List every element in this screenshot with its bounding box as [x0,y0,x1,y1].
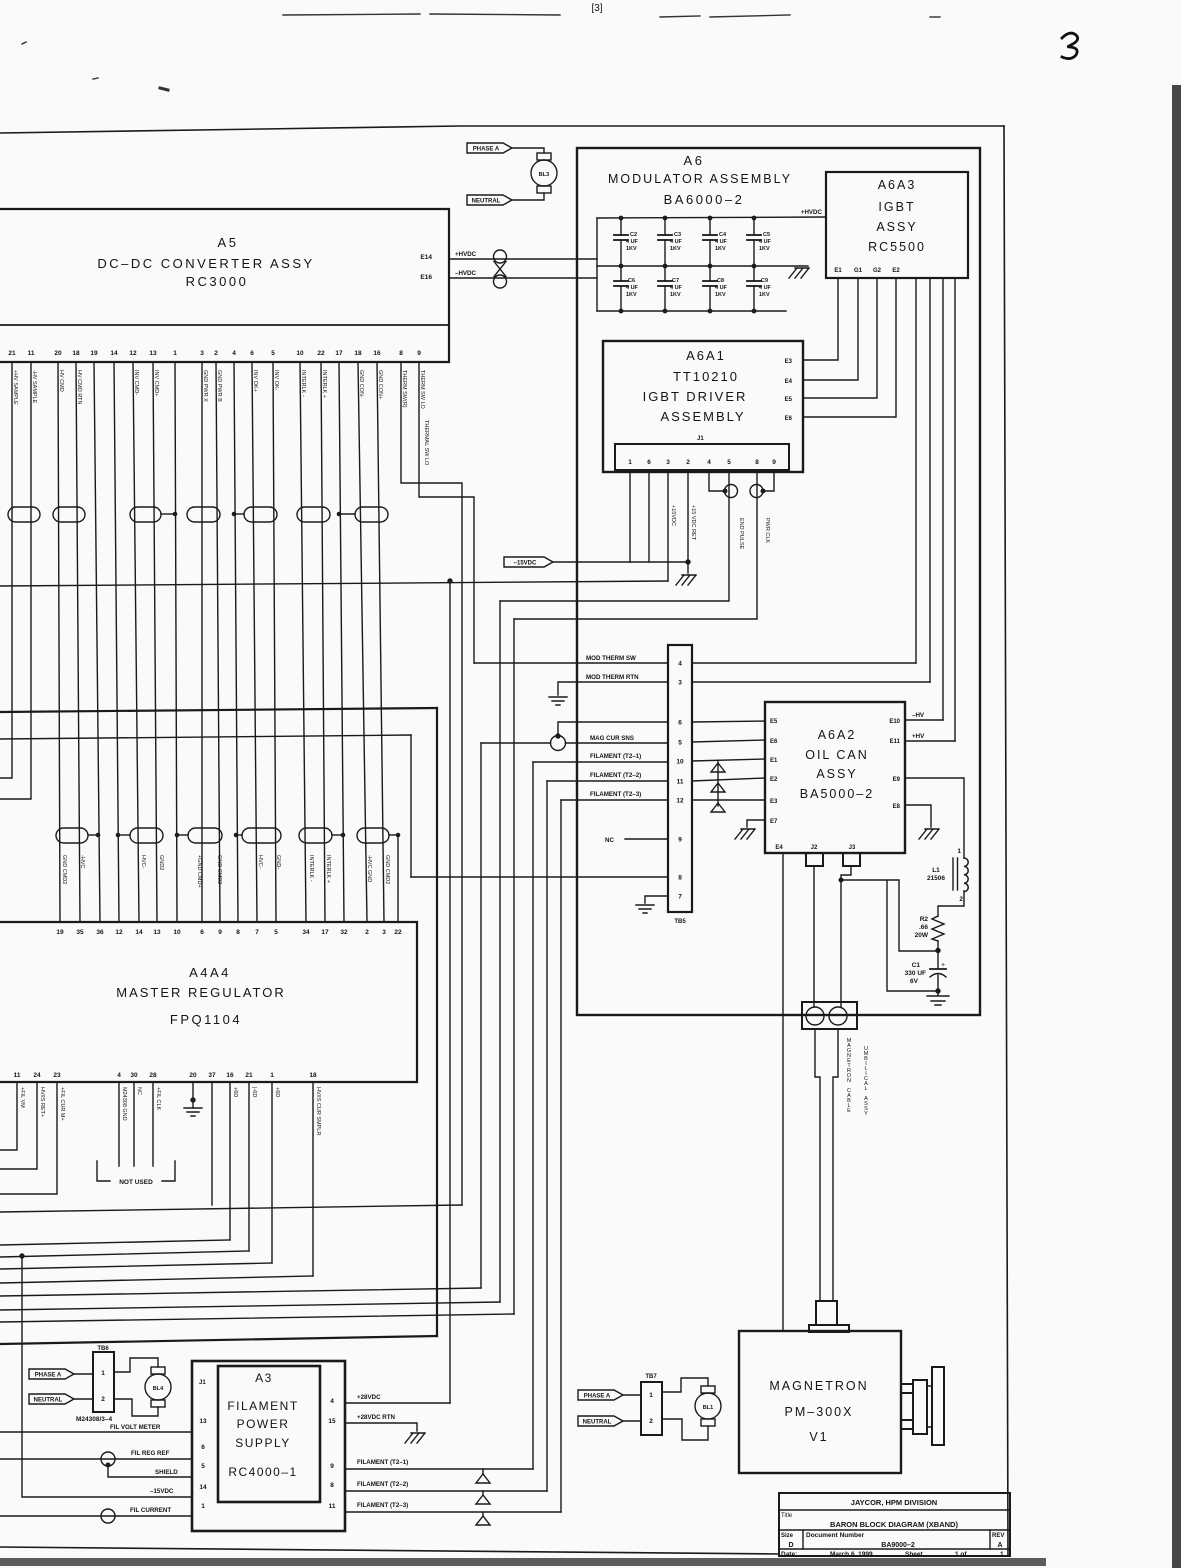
flag -15VDC [504,557,553,567]
svg-text:37: 37 [208,1072,216,1079]
svg-text:–15VDC: –15VDC [150,1488,174,1495]
svg-text:21: 21 [245,1072,253,1079]
svg-text:IGBT: IGBT [878,200,915,214]
svg-text:PHASE A: PHASE A [473,147,500,153]
sheet top border [0,126,1004,133]
svg-text:1: 1 [201,1503,205,1510]
cable label MAGNETRON CABLE (stacked) [847,1038,869,1117]
svg-text:INV OK-: INV OK- [273,370,279,391]
svg-text:3: 3 [200,350,204,357]
wire MOD THERM SW [474,662,668,664]
svg-text:-HVC GND: -HVC GND [366,855,372,882]
svg-text:4 UF: 4 UF [626,285,639,291]
ferrite oval taps row 1 [161,512,355,515]
wire A6A3 to MOD THERM RTN [929,278,931,682]
A4A4 bottom pin wire labels (rotated) [19,1087,321,1135]
svg-text:+6D: +6D [274,1087,280,1097]
magnetron PM-300X V1 box [739,1331,901,1473]
svg-text:[3]: [3] [591,3,602,14]
svg-text:PWR CLK: PWR CLK [764,518,770,543]
wire A5 pin 18 to A4A4 [76,362,80,922]
J2 stub [806,853,823,866]
svg-text:10: 10 [296,350,304,357]
wire A5 pin 5 to A4A4 [273,362,276,922]
svg-text:E6: E6 [785,416,793,422]
svg-text:March 6, 1999: March 6, 1999 [830,1551,873,1558]
svg-text:+: + [941,962,945,969]
svg-text:PHASE A: PHASE A [584,1394,611,1400]
svg-text:E3: E3 [770,799,778,805]
svg-text:MASTER REGULATOR: MASTER REGULATOR [116,985,285,1000]
svg-text:9: 9 [417,350,421,357]
wire A5 pin 18 to A4A4 [358,362,367,922]
spark gaps between filament lines at A3 [476,1474,490,1525]
wire A5 pin 14 to A4A4 [114,362,119,922]
wire A5 pin 1 to A4A4 [175,362,177,922]
wire J1 pin 3 +15VDC [667,472,669,581]
svg-text:4 UF: 4 UF [670,285,683,291]
svg-text:+FIL CUR M+: +FIL CUR M+ [59,1087,65,1121]
svg-text:5: 5 [201,1463,205,1470]
svg-text:C5: C5 [763,232,770,238]
svg-text:GND CMD2: GND CMD2 [216,855,222,884]
bus wire A4A4 pin 1 [0,1263,272,1269]
svg-text:19: 19 [56,929,64,936]
svg-text:C6: C6 [628,278,635,284]
svg-text:MODULATOR ASSEMBLY: MODULATOR ASSEMBLY [608,172,792,186]
svg-text:1KV: 1KV [626,292,637,298]
svg-text:C3: C3 [674,232,681,238]
wire A5 pin 10 to A4A4 [300,362,306,922]
svg-text:23: 23 [53,1072,61,1079]
wire PWR CLK vertical [513,619,515,1314]
svg-text:4 UF: 4 UF [715,239,728,245]
wire L1 to R2 [938,891,964,916]
J3 stub [843,853,860,866]
svg-text:+HVDC: +HVDC [455,251,477,258]
svg-text:C9: C9 [761,278,768,284]
svg-text:20: 20 [54,350,62,357]
svg-text:11: 11 [28,350,35,357]
cap bank bottom rail [597,310,786,312]
svg-text:21506: 21506 [927,875,945,882]
svg-text:POWER: POWER [237,1417,290,1431]
svg-text:13: 13 [199,1418,207,1425]
svg-text:NC: NC [605,837,614,844]
svg-text:30: 30 [130,1072,138,1079]
svg-text:9: 9 [330,1463,334,1470]
svg-text:OIL CAN: OIL CAN [805,748,869,762]
NC stub TB5 pin 9 [625,838,668,840]
svg-text:5: 5 [727,459,731,466]
wire MOD THERM RTN with ground [558,682,668,695]
cap bank +HVDC top rail [597,217,826,218]
wire TB7 pin 1 to BL1 [662,1378,708,1392]
svg-text:|-6D: |-6D [251,1087,257,1097]
svg-text:2: 2 [214,350,218,357]
wire E2 to driver E6 [803,278,896,417]
spark gaps between filament lines [711,761,725,812]
svg-text:1KV: 1KV [759,292,770,298]
svg-text:36: 36 [96,929,104,936]
svg-text:17: 17 [335,350,343,357]
svg-text:1KV: 1KV [670,292,681,298]
svg-text:MAGNETRON: MAGNETRON [769,1379,868,1393]
magnetron input stub [816,1301,837,1325]
svg-text:1KV: 1KV [715,246,726,252]
wire A5 pin 17 to A4A4 [339,362,344,922]
svg-text:PHASE A: PHASE A [35,1373,62,1379]
svg-text:18: 18 [72,350,80,357]
wire TB7 pin 2 to BL1 [662,1419,708,1440]
wire TB5 pin 11 to E2 [692,778,765,781]
svg-text:2: 2 [649,1418,653,1425]
svg-text:1: 1 [649,1392,653,1399]
A3 filament power supply box [192,1361,345,1531]
blower motor BL4 [145,1367,171,1407]
flag NEUTRAL (top) [467,195,512,205]
svg-text:10: 10 [173,929,181,936]
svg-text:TB7: TB7 [645,1374,657,1380]
svg-text:JAYCOR, HPM DIVISION: JAYCOR, HPM DIVISION [851,1498,937,1507]
svg-text:+28VDC: +28VDC [357,1394,381,1401]
connector loop J1 pin 4 [709,472,725,491]
svg-text:3: 3 [382,929,386,936]
wire MAG CUR SNS vertical [480,743,482,1288]
bus wire PWR CLK [0,1314,514,1322]
title block [779,1493,1010,1558]
capacitor C9 4 UF 1KV [747,266,772,313]
svg-text:ASSY: ASSY [876,220,917,234]
svg-text:E14: E14 [420,254,432,261]
capacitor C6 4 UF 1KV [614,266,639,313]
svg-text:J3: J3 [849,845,856,851]
svg-text:SUPPLY: SUPPLY [235,1436,290,1450]
svg-text:35: 35 [76,929,84,936]
svg-text:C8: C8 [717,278,724,284]
svg-text:6V: 6V [910,978,919,985]
svg-text:G1: G1 [854,268,863,274]
wire NEUTRAL to BL3 [511,193,544,200]
svg-text:Size: Size [781,1533,794,1539]
svg-text:M24308 GND: M24308 GND [121,1087,127,1121]
wire TB5 pin 10 to E1 [692,759,765,761]
svg-text:C4: C4 [719,232,727,238]
wire TB5 pin 6 to sense loop [558,722,668,736]
svg-text:A4A4: A4A4 [189,965,231,980]
svg-text:J1: J1 [199,1380,206,1386]
svg-text:M24308/3–4: M24308/3–4 [76,1416,113,1423]
svg-text:+15 VDC RET: +15 VDC RET [690,505,696,541]
svg-text:FILAMENT: FILAMENT [227,1399,298,1413]
svg-text:E1: E1 [770,758,778,764]
svg-text:ASSY: ASSY [816,767,857,781]
svg-text:4 UF: 4 UF [759,239,772,245]
bus wire +15VDC to J1 pin 3 [0,581,668,586]
svg-text:E11: E11 [890,739,901,745]
svg-text:+28VDC RTN: +28VDC RTN [357,1414,396,1421]
bus wire thick interlock bottom [0,1336,437,1344]
wire FILAMENT (T2-2) to TB5 pin 11 [547,780,668,782]
svg-text:1: 1 [1000,1551,1004,1558]
A6A3 IGBT assy box [826,172,968,278]
wire G2 to driver E5 [803,278,877,398]
flag PHASE A (top) [467,143,512,153]
ground at mid rail [789,268,809,278]
A4A4 top pin numbers [56,929,402,936]
svg-text:3: 3 [666,459,670,466]
svg-text:11: 11 [14,1072,21,1079]
wire J1 pin 2 +15 VDC RET to ground [687,472,689,573]
A6A1 IGBT driver assembly box [603,341,803,472]
svg-text:IGBT DRIVER: IGBT DRIVER [643,389,748,404]
svg-text:FILAMENT (T2–2): FILAMENT (T2–2) [357,1481,408,1488]
handwritten sheet number 3 [1062,33,1078,59]
twisted pair symbol [494,250,507,263]
svg-text:9: 9 [678,837,682,844]
wire E1 to driver E3 [803,278,838,360]
svg-text:MOD THERM SW: MOD THERM SW [586,655,636,662]
svg-text:5: 5 [678,740,682,747]
svg-text:BL3: BL3 [539,172,549,178]
svg-text:FILAMENT (T2–1): FILAMENT (T2–1) [590,753,641,760]
svg-text:E4: E4 [775,845,783,851]
blower motor BL3 [531,153,557,193]
svg-text:11: 11 [329,1503,336,1510]
svg-text:2: 2 [959,896,963,903]
svg-text:6: 6 [200,929,204,936]
svg-text:MAG CUR SNS: MAG CUR SNS [590,735,634,742]
svg-text:12: 12 [676,798,684,805]
bus wire MAG CUR SNS [0,1288,481,1296]
svg-text:8: 8 [330,1482,334,1489]
wire -15VDC to A3 [22,1256,192,1497]
svg-text:E3: E3 [785,359,793,365]
svg-text:HVC-: HVC- [140,855,146,869]
svg-text:NEUTRAL: NEUTRAL [583,1420,612,1426]
wire G1 to driver E4 [803,278,858,380]
svg-text:16: 16 [373,350,381,357]
svg-text:+6D: +6D [232,1087,238,1097]
sense loop wires near C1 [841,880,936,991]
J1 wire labels (rotated) [670,505,770,550]
scan dark bar right edge [1172,85,1181,1568]
svg-text:C2: C2 [630,232,637,238]
svg-text:8: 8 [678,875,682,882]
svg-text:14: 14 [110,350,118,357]
svg-text:FILAMENT (T2–3): FILAMENT (T2–3) [590,791,641,798]
resistor R2 .66 20W [915,916,944,941]
svg-text:REV: REV [992,1533,1004,1539]
ferrite bead ovals row 2 [56,828,389,843]
wire +28VDC [345,1402,450,1404]
wire TB6 pin 2 to BL4 [114,1399,158,1416]
svg-text:END PULSE: END PULSE [738,518,744,550]
svg-text:1: 1 [270,1072,274,1079]
inductor L1 21506 [927,848,968,903]
wire A5 pin 8 therm sw [401,362,462,1205]
svg-text:4 UF: 4 UF [759,285,772,291]
svg-text:THERM SW LO: THERM SW LO [419,370,425,410]
A4A4 top pin wire labels (rotated) [61,855,390,888]
svg-text:18: 18 [354,350,362,357]
svg-text:14: 14 [135,929,143,936]
svg-text:16: 16 [226,1072,234,1079]
svg-text:330 UF: 330 UF [905,970,926,977]
svg-text:+FIL VM: +FIL VM [19,1087,25,1108]
wire PHASE A to BL3 [511,148,544,153]
wire E7 to ground [747,820,765,827]
svg-text:4: 4 [707,459,711,466]
svg-text:BA6000–2: BA6000–2 [664,192,745,207]
svg-text:INTERLK -: INTERLK - [308,855,314,882]
A6 modulator assembly box [577,148,980,1015]
wire -HVDC E16 to cap bank [449,277,597,279]
A5 DC-DC converter assy box [0,209,449,362]
svg-text:NEUTRAL: NEUTRAL [472,199,501,205]
A4A4 bottom pin numbers [14,1072,317,1079]
svg-text:-HVC: -HVC [79,855,85,868]
svg-text:E9: E9 [893,777,901,783]
svg-text:E6: E6 [770,739,778,745]
svg-text:GND-: GND- [275,855,281,869]
flag PHASE A (TB7) [578,1390,623,1400]
svg-text:+HV: +HV [912,733,925,740]
wire J1 pin 1 to -15VDC [629,472,631,562]
terminal strip TB5 [668,645,692,925]
bus wire END PULSE [0,1302,500,1310]
terminal strip TB7 [641,1374,662,1435]
scan dark band bottom [0,1558,1046,1566]
svg-text:R2: R2 [920,916,929,923]
svg-text:DC–DC CONVERTER ASSY: DC–DC CONVERTER ASSY [97,256,314,271]
wire TB5 pin 4 to A6A3 [692,662,916,664]
svg-text:NEUTRAL: NEUTRAL [34,1398,63,1404]
capacitor C8 4 UF 1KV [703,266,728,313]
svg-text:18: 18 [309,1072,317,1079]
svg-text:A: A [997,1542,1002,1549]
svg-text:GND CMD2: GND CMD2 [61,855,67,884]
wire J1 pin 5 END PULSE [500,472,729,601]
A5 pin wire labels (rotated) [12,370,429,466]
svg-text:3: 3 [678,680,682,687]
wire TB5 pin 12 to E3 [692,799,765,801]
svg-text:–HV: –HV [912,712,925,719]
svg-text:FILAMENT (T2–3): FILAMENT (T2–3) [357,1502,408,1509]
svg-text:PM–300X: PM–300X [785,1405,854,1419]
magnetron cable pair [815,1029,820,1301]
svg-text:–HVDC: –HVDC [455,270,477,277]
svg-text:2: 2 [101,1396,105,1403]
svg-text:E4: E4 [785,379,793,385]
svg-text:A6A1: A6A1 [686,348,726,363]
svg-text:BA9000–2: BA9000–2 [881,1542,915,1549]
wire TB5 pin 8 long bus [411,876,668,878]
wire A5 pin 6 to A4A4 [252,362,257,922]
svg-text:FIL CURRENT: FIL CURRENT [130,1507,171,1514]
svg-text:E: E [847,1108,851,1114]
svg-text:1: 1 [957,848,961,855]
wire A5 pin 20 to A4A4 [58,362,60,922]
wire E9 to L1 [905,778,964,858]
svg-text:14: 14 [199,1484,207,1491]
capacitor C1 330 UF 6V [905,962,946,991]
svg-text:GND2: GND2 [158,855,164,870]
wire J1 pin 6 to -15VDC [648,472,650,562]
wire thick interlock vertical [436,708,438,1336]
wire A4A4 pin 18 [312,1082,314,1276]
svg-text:1KV: 1KV [759,246,770,252]
svg-text:RC3000: RC3000 [186,274,249,289]
svg-text:22: 22 [394,929,402,936]
wire FILAMENT (T2-3) to TB5 pin 12 [561,799,668,801]
svg-text:1: 1 [628,459,632,466]
wire TB5 pin 5 to E6 [692,740,765,742]
wire A6A3 to -HV E10 [942,278,944,720]
svg-text:TB5: TB5 [674,919,686,925]
bus wire A4A4 pin 18 [0,1276,313,1283]
svg-text:NOT USED: NOT USED [119,1179,153,1186]
svg-text:10: 10 [676,759,684,766]
svg-text:RC4000–1: RC4000–1 [228,1465,297,1479]
wire R2 to C1 junction [937,941,939,969]
svg-text:J1: J1 [697,436,704,442]
wire A4A4 pin 22 stub [397,836,399,922]
wire A5 pin 9 therm rtn to MOD THERM SW bus [419,362,474,663]
wire E11 +HV [905,740,955,742]
wire FIL CURRENT with meter loop [0,1515,192,1517]
svg-text:5: 5 [271,350,275,357]
svg-text:BARON BLOCK DIAGRAM (XBAND): BARON BLOCK DIAGRAM (XBAND) [830,1520,958,1529]
svg-text:6: 6 [250,350,254,357]
svg-text:J2: J2 [811,845,818,851]
junction node on +15VDC bus [448,579,452,583]
wire A5 pin 2 to A4A4 [216,362,220,922]
svg-text:V1: V1 [809,1430,828,1444]
wire A5 pin 16 to A4A4 [377,362,384,922]
wire A6A3 to +HV E11 [954,278,956,741]
svg-text:TT10210: TT10210 [673,369,739,384]
svg-text:A6A2: A6A2 [818,728,857,742]
svg-text:17: 17 [321,929,329,936]
svg-text:TB6: TB6 [97,1346,109,1352]
flag PHASE A (TB6) [29,1369,74,1379]
bus wire A4A4 pin 16 [0,1240,230,1245]
svg-text:D: D [788,1542,793,1549]
svg-text:1KV: 1KV [715,292,726,298]
svg-text:7: 7 [255,929,259,936]
svg-text:4: 4 [330,1398,334,1405]
svg-text:6: 6 [201,1444,205,1451]
wire TB5 pin 6 to E5 [692,721,765,722]
svg-text:Date:: Date: [781,1551,797,1558]
svg-text:E5: E5 [770,719,778,725]
A6A2 oil can assy box [765,702,905,853]
svg-text:12: 12 [129,350,137,357]
wire FIL REG REF with meter loop [0,1458,192,1460]
wire A5 pin 21 +HV SAMPLE [0,362,12,778]
svg-text:INTERLK +: INTERLK + [325,855,331,883]
svg-text:.66: .66 [919,924,928,931]
wire FILAMENT (T2-1) to TB5 pin 10 [533,761,668,763]
svg-text:THERM SW(R): THERM SW(R) [401,370,407,408]
svg-text:5: 5 [274,929,278,936]
wire E4 to magnetron [782,853,784,1330]
sheet right border [1004,126,1008,1556]
svg-text:13: 13 [153,929,161,936]
svg-text:A5: A5 [218,235,239,250]
svg-text:G2: G2 [873,268,882,274]
